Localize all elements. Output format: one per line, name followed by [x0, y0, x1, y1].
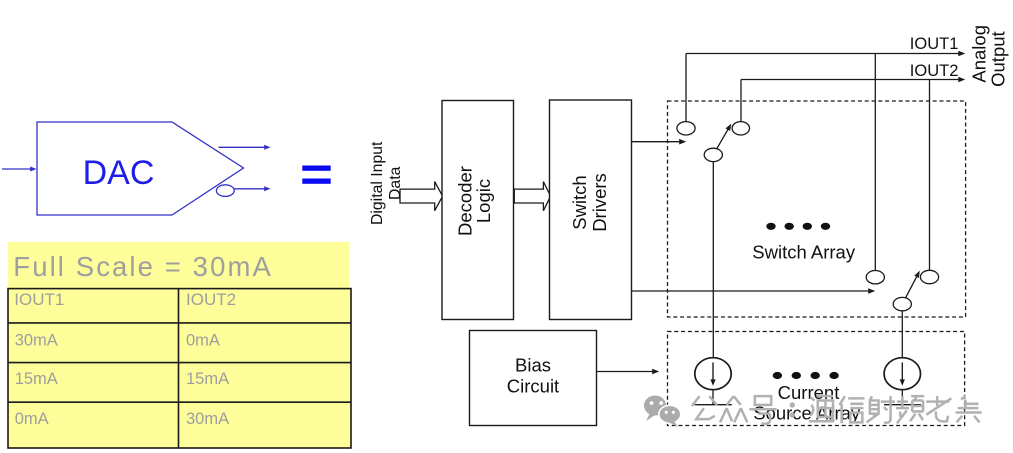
svg-text:Bias: Bias	[515, 355, 551, 376]
switch S2 pole	[893, 297, 911, 310]
decoder logic label	[455, 166, 495, 236]
svg-text:15mA: 15mA	[15, 370, 58, 388]
svg-text:Circuit: Circuit	[507, 375, 559, 396]
wire: DAC input	[2, 167, 37, 172]
table body	[8, 289, 351, 448]
svg-text:Drivers: Drivers	[589, 173, 610, 232]
Analog Output label	[968, 25, 1008, 87]
switch S1 blade	[717, 124, 732, 149]
switch drivers box	[550, 100, 632, 320]
watermark text	[692, 396, 982, 424]
wire: S1 pole to current source I1	[712, 162, 714, 358]
svg-text:IOUT1: IOUT1	[14, 290, 64, 309]
decoder logic box	[442, 101, 514, 320]
wire: contact A2 to IOUT1	[874, 54, 876, 271]
wire: contact A to IOUT1	[685, 54, 687, 122]
wire: IOUT1 output line	[686, 51, 965, 57]
current source array dashed box	[668, 332, 965, 426]
block arrow: data into decoder	[400, 182, 443, 211]
svg-text:Output: Output	[987, 31, 1008, 87]
svg-text:Digital Input: Digital Input	[369, 141, 386, 225]
equals sign	[302, 166, 330, 184]
svg-text:0mA: 0mA	[186, 331, 220, 349]
svg-text:15mA: 15mA	[186, 370, 229, 388]
wire: switch drivers to switch S2	[632, 288, 876, 294]
svg-text:IOUT2: IOUT2	[186, 290, 236, 309]
Digital Input Data label	[369, 141, 404, 225]
watermark wechat logo	[644, 396, 681, 428]
switch array dashed box	[668, 101, 966, 317]
wire: I1 to rail	[695, 390, 732, 405]
svg-text:Logic: Logic	[473, 179, 494, 223]
wire: switch drivers to switch S1	[632, 139, 687, 145]
wire: DAC output 1	[219, 145, 271, 150]
wire: DAC output 2	[235, 186, 271, 191]
wire: contact B2 to IOUT2	[929, 80, 931, 271]
wire: S2 pole to current source I2	[901, 311, 903, 358]
svg-text:0mA: 0mA	[15, 410, 49, 428]
svg-text:Analog: Analog	[968, 25, 989, 83]
switch S2 blade	[906, 271, 920, 298]
wire: contact B to IOUT2	[740, 80, 742, 122]
switch drivers label	[569, 173, 610, 232]
switch S2 contact B	[920, 270, 938, 283]
svg-text:30mA: 30mA	[15, 332, 58, 350]
block arrow: decoder to switch drivers	[514, 182, 550, 211]
svg-text:DAC: DAC	[83, 154, 155, 192]
switch S1 contact A	[677, 122, 695, 135]
svg-text:30mA: 30mA	[186, 410, 229, 428]
svg-text:IOUT1: IOUT1	[910, 35, 959, 53]
svg-text:Full Scale = 30mA: Full Scale = 30mA	[13, 251, 273, 282]
current source array dots	[773, 372, 839, 379]
current source I1	[695, 358, 731, 390]
table header: Full Scale = 30mA	[8, 242, 349, 289]
bias circuit box	[470, 331, 597, 426]
svg-text:Switch Array: Switch Array	[752, 242, 856, 263]
inversion bubble on DAC output 2	[216, 185, 234, 197]
wire: I2 to rail	[884, 390, 921, 405]
DAC symbol U1	[37, 122, 244, 215]
switch S1 contact B	[732, 122, 749, 135]
wire: IOUT2 output line	[741, 77, 965, 83]
switch array dots	[766, 223, 830, 230]
wire: bias circuit to current source array	[597, 369, 660, 375]
switch S1 pole	[704, 148, 722, 161]
switch S2 contact A	[866, 271, 884, 284]
svg-text:IOUT2: IOUT2	[910, 62, 959, 80]
current source I2	[884, 358, 920, 390]
svg-text:Switch: Switch	[569, 175, 590, 230]
